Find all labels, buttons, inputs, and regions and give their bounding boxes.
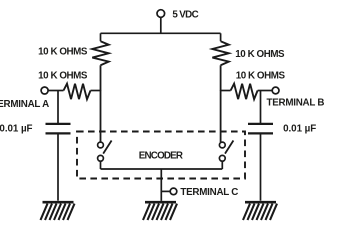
svg-text:10 K OHMS: 10 K OHMS	[38, 70, 88, 81]
wire right branch upper	[220, 33, 222, 41]
wire terminal A lead	[48, 90, 63, 92]
svg-text:10 K OHMS: 10 K OHMS	[236, 71, 286, 82]
wire top supply rail	[101, 32, 221, 34]
resistor R3 10K horizontal left	[64, 84, 91, 100]
capacitor C1 0.01uF	[46, 124, 71, 133]
wire R3 to left branch	[91, 90, 101, 92]
wire right capacitor branch lower	[260, 134, 262, 201]
wire left branch middle	[100, 65, 102, 91]
wire left capacitor branch upper	[57, 91, 59, 124]
ground right	[243, 202, 277, 220]
switch S1 upper contact	[98, 142, 104, 148]
svg-text:10 K OHMS: 10 K OHMS	[38, 46, 88, 57]
svg-text:5 VDC: 5 VDC	[172, 10, 198, 21]
wire 5VDC stub	[160, 17, 162, 33]
wire R4 to terminal B	[258, 90, 273, 92]
ground center	[143, 202, 177, 220]
switch S2 lever	[225, 141, 233, 154]
svg-text:ENCODER: ENCODER	[139, 151, 183, 162]
wire S2 to common	[221, 161, 223, 169]
switch S1 lever	[103, 141, 111, 154]
switch S2 upper contact	[219, 142, 225, 148]
resistor R4 10K horizontal right	[231, 84, 258, 100]
wire left branch lower	[100, 91, 102, 143]
capacitor C2 0.01uF	[248, 124, 273, 133]
resistor R1 10K vertical left	[92, 41, 108, 65]
wire left branch upper	[100, 33, 102, 41]
ground left	[41, 202, 75, 220]
svg-text:TERMINAL B: TERMINAL B	[267, 98, 325, 109]
node terminal C	[170, 188, 177, 195]
node terminal A	[41, 87, 48, 94]
svg-text:10 K OHMS: 10 K OHMS	[235, 49, 285, 60]
wire common to ground	[160, 169, 162, 201]
svg-text:TERMINAL C: TERMINAL C	[180, 187, 238, 198]
wire right branch to R4	[221, 90, 231, 92]
wire terminal C lead	[161, 190, 170, 192]
switch S1 lower contact	[98, 155, 104, 161]
svg-text:TERMINAL A: TERMINAL A	[0, 99, 49, 110]
resistor R2 10K vertical right	[212, 41, 228, 65]
node 5 VDC terminal	[157, 10, 165, 18]
wire encoder common	[101, 168, 223, 170]
wire left capacitor branch lower	[57, 134, 59, 201]
encoder dashed enclosure	[77, 132, 245, 179]
wire right branch middle	[220, 65, 222, 91]
switch S2 lower contact	[219, 155, 225, 161]
wire S1 to common	[100, 161, 102, 169]
wire right branch lower	[220, 91, 222, 143]
svg-text:0.01 µF: 0.01 µF	[283, 123, 316, 134]
wire right capacitor branch upper	[260, 91, 262, 124]
svg-text:0.01 µF: 0.01 µF	[0, 124, 33, 135]
node terminal B	[272, 87, 279, 94]
